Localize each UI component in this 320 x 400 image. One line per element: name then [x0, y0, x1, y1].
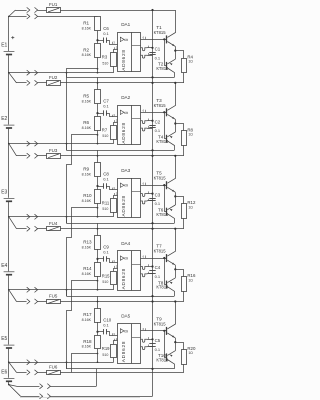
wire tap6 sense segment a [17, 386, 40, 388]
node divider mid block2 [96, 112, 98, 114]
wire R16 bottom [183, 291, 185, 301]
svg-text:КТ814: КТ814 [156, 285, 169, 290]
node tap0 [8, 16, 10, 18]
junction emitter bus / R12 block3 [174, 195, 176, 197]
junction T3 collector / top rail [174, 82, 176, 84]
wire tap2 sense drop [66, 144, 68, 151]
junction sense/divider tap1 [97, 72, 99, 74]
junction top rail / supply column block3 [151, 155, 153, 157]
junction loop/divider block2 [97, 134, 99, 136]
wire battery link E4-E5 [8, 275, 10, 344]
wire C6 to pin3 [106, 41, 118, 45]
svg-text:DA2: DA2 [121, 95, 130, 100]
wire tap4 fused segment a [17, 301, 27, 303]
junction divider / top rail block3 [97, 155, 99, 157]
svg-text:8.16K: 8.16K [82, 126, 92, 130]
junction V+ block2 [151, 120, 153, 122]
resistor R19 [111, 345, 117, 358]
connector sense tap5 pin a [27, 360, 30, 365]
transistor T10 emitter [167, 351, 175, 356]
connector tap6 out pin b [47, 394, 50, 399]
svg-text:FU1: FU1 [49, 2, 58, 7]
wire emitter bus block2 [175, 119, 177, 132]
svg-text:AD8628: AD8628 [121, 122, 126, 143]
resistor R13 [95, 236, 101, 250]
op-amp DA5 gain symbol [120, 329, 124, 333]
wire node to C10 [98, 331, 104, 333]
svg-text:0.1: 0.1 [103, 177, 109, 182]
wire tap4 fused diagonal [9, 290, 17, 302]
svg-text:C4: C4 [155, 265, 161, 270]
junction sense/loop tap1 [66, 72, 68, 74]
wire R6 loop to left bus [67, 135, 98, 224]
resistor R7 [111, 126, 117, 140]
svg-text:0.1: 0.1 [103, 31, 109, 36]
wire C8 to pin3 [106, 187, 118, 190]
pin 7 tick block1 [148, 46, 150, 48]
op-amp DA3 body [118, 179, 141, 218]
junction output/base split block3 [163, 184, 165, 186]
svg-text:AD8628: AD8628 [121, 49, 126, 70]
wire base drop block1 [165, 39, 168, 65]
resistor R16 [182, 277, 187, 292]
svg-text:0.1: 0.1 [155, 201, 161, 206]
wire tap1 sense drop [66, 73, 68, 78]
pin 2 tick block5 [114, 339, 116, 341]
wire tap6 out diagonal [9, 385, 21, 397]
wire tap5 fused segment b [38, 372, 47, 374]
junction sense/loop tap3 [66, 216, 68, 218]
wire bottom rail block4 [67, 296, 175, 298]
connector fused tap5 pin b [35, 370, 38, 375]
wire top rail block2 [60, 82, 184, 84]
svg-text:8.16K: 8.16K [82, 199, 92, 203]
transistor T5 base bar [166, 181, 168, 189]
junction bottom rail / supply column block1 [151, 76, 153, 78]
op-amp DA2 gain symbol [120, 110, 124, 114]
wire tap6 sense segment b [50, 386, 96, 388]
wire FU6 line to R20 [60, 372, 184, 374]
wire tap2 sense [9, 143, 114, 145]
junction V+ block3 [151, 193, 153, 195]
svg-text:∞: ∞ [124, 110, 128, 116]
connector fused tap2 pin a [27, 153, 30, 158]
connector fused tap2 pin b [35, 153, 38, 158]
wire tap5 fused diagonal [9, 362, 17, 372]
svg-text:КТ815: КТ815 [154, 103, 167, 108]
node tap2 [8, 143, 10, 145]
junction bottom rail / supply column block5 [151, 368, 153, 370]
junction top rail / supply column block5 [151, 300, 153, 302]
transistor T6 base bar [166, 208, 168, 216]
pin 6 tick block5 [145, 328, 147, 331]
connector sense tap1 pin b [35, 70, 38, 75]
svg-text:R5: R5 [83, 94, 89, 99]
battery E1 [4, 51, 15, 53]
wire tap3 sense drop [66, 217, 68, 223]
svg-text:510: 510 [102, 134, 108, 138]
op-amp DA3 gain symbol [120, 183, 124, 187]
wire R14 loop to left bus [67, 281, 98, 369]
transistor T7 emitter [167, 260, 175, 265]
transistor T8 collector [167, 287, 174, 296]
junction loop/divider block4 [97, 280, 99, 282]
pin 6 tick block1 [145, 37, 147, 40]
wire emitter bus block3 [175, 192, 177, 205]
fuse FU1 [47, 8, 61, 13]
wire R2 bottom [97, 57, 99, 72]
svg-text:R1: R1 [83, 21, 89, 26]
svg-text:∞: ∞ [124, 329, 128, 335]
wire battery link E3-E4 [8, 202, 10, 271]
junction output/base split block1 [163, 38, 165, 40]
transistor T9 base bar [166, 327, 168, 335]
pin 3 tick block3 [112, 188, 114, 190]
junction T7 collector / top rail [174, 228, 176, 230]
svg-text:C2: C2 [155, 119, 161, 124]
wire top rail block5 [60, 301, 184, 303]
svg-text:КТ815: КТ815 [154, 176, 167, 181]
wire R20 bottom [183, 364, 185, 372]
transistor T4 emitter [167, 132, 175, 137]
node tap3 [8, 216, 10, 218]
connector sense tap1 pin a [27, 70, 30, 75]
svg-text:R9: R9 [83, 167, 89, 172]
wire tap4 fused segment b [38, 301, 47, 303]
op-amp DA5 body [118, 324, 141, 364]
junction top rail / supply column block2 [151, 82, 153, 84]
wire base drop block4 [165, 258, 168, 285]
capacitor C3 [149, 198, 155, 200]
junction bottom rail / supply column block4 [151, 295, 153, 297]
wire bottom rail block3 [67, 223, 175, 225]
wire pin4 V- block4 [141, 274, 148, 277]
connector X1.2 pin a [27, 14, 30, 19]
svg-text:C1: C1 [155, 47, 161, 52]
wire divider chain into block2 [97, 77, 99, 90]
transistor T3 emitter [167, 114, 175, 119]
svg-text:E6: E6 [1, 370, 7, 376]
transistor T2 emitter [167, 59, 175, 64]
wire bottom rail block5 [67, 368, 175, 370]
transistor T4 collector [167, 141, 174, 150]
wire tap0 fused segment a [16, 10, 27, 12]
fuse FU4 [47, 227, 61, 231]
svg-text:R3: R3 [102, 55, 108, 60]
wire pin4 V- block5 [141, 347, 148, 350]
fuse FU6 [47, 371, 61, 375]
transistor T1 collector [167, 10, 175, 37]
junction divider / top rail block5 [97, 301, 99, 303]
connector sense tap4 pin b [35, 287, 38, 292]
wire below E6 [8, 382, 10, 385]
wire R19 bottom [113, 358, 115, 362]
wire C9 to pin3 [106, 259, 118, 263]
connector sense tap5 pin b [35, 360, 38, 365]
junction V+ block1 [151, 47, 153, 49]
capacitor C8 [103, 183, 105, 188]
wire top rail block1 [60, 10, 175, 12]
junction sense/loop tap2 [66, 143, 68, 145]
battery E4 [4, 271, 15, 273]
wire battery link E2-E3 [8, 129, 10, 198]
svg-text:КТ815: КТ815 [154, 30, 167, 35]
svg-text:AD8628: AD8628 [121, 268, 126, 289]
svg-text:0.1: 0.1 [155, 347, 161, 352]
pin 2 tick block4 [114, 266, 116, 268]
wire R17-R18 link [97, 322, 99, 335]
wire R10 loop to left bus [67, 208, 98, 297]
capacitor C7 [103, 110, 105, 115]
junction T9 collector / top rail [174, 300, 176, 302]
transistor T6 collector [167, 214, 174, 223]
svg-text:E3: E3 [1, 190, 7, 196]
connector tap6 sense pin a [40, 384, 43, 389]
wire tap5 fused segment a [17, 372, 27, 374]
pin 7 tick block3 [148, 191, 150, 193]
wire battery link E5-E6 [8, 349, 10, 378]
capacitor C4 [149, 270, 155, 272]
junction bottom rail / supply column block2 [151, 149, 153, 151]
battery E5 [4, 344, 15, 346]
pin 7 tick block5 [148, 337, 150, 339]
resistor R15 [111, 272, 117, 285]
junction T5 collector / top rail [174, 155, 176, 157]
svg-text:0.1: 0.1 [155, 274, 161, 279]
svg-text:R17: R17 [83, 312, 92, 317]
transistor T3 base bar [166, 108, 168, 116]
wire pin7 V+ block3 [141, 194, 148, 197]
wire R13-R14 link [97, 249, 99, 262]
resistor R10 [95, 190, 101, 204]
connector sense tap3 pin a [27, 214, 30, 219]
junction emitter bus / R20 block5 [174, 341, 176, 343]
wire divider chain into block5 [97, 296, 99, 308]
capacitor C1 [149, 52, 155, 54]
junction sense/loop tap4 [66, 289, 68, 291]
battery E3 [4, 197, 15, 199]
junction top rail / supply column block1 [151, 9, 153, 11]
svg-text:1Ω: 1Ω [188, 133, 193, 137]
wire node to C8 [98, 186, 104, 188]
wire left battery column top [8, 16, 10, 51]
junction top rail / supply column block4 [151, 228, 153, 230]
wire pin7 V+ block5 [141, 339, 148, 342]
svg-text:AD8628: AD8628 [121, 341, 126, 362]
junction emitter bus / R4 block1 [174, 50, 176, 52]
svg-text:FU5: FU5 [49, 294, 58, 299]
connector sense tap2 pin a [27, 141, 30, 146]
wire DA5 output [141, 330, 167, 332]
wire tap3 fused diagonal [9, 217, 17, 229]
connector tap6 out pin a [40, 394, 43, 399]
pin 6 tick block2 [145, 110, 147, 113]
wire R9-R10 link [97, 176, 99, 189]
wire R7 bottom [113, 139, 115, 143]
pin 4 tick block4 [148, 272, 150, 274]
junction output/base split block2 [163, 111, 165, 113]
wire tap4 sense [9, 289, 114, 291]
pin 3 tick block1 [112, 42, 114, 44]
wire R8 takeoff [175, 124, 183, 132]
wire tap1 fused segment b [38, 82, 47, 84]
svg-text:0.1: 0.1 [155, 55, 161, 60]
svg-text:1Ω: 1Ω [188, 351, 193, 355]
wire R15 top to pin2 [114, 269, 118, 272]
wire tap6 out segment a [21, 396, 40, 398]
resistor R2 [95, 44, 101, 58]
svg-text:R11: R11 [102, 201, 110, 206]
transistor T9 collector [167, 302, 175, 329]
svg-text:R6: R6 [83, 120, 89, 125]
wire R18 loop to left bus [72, 354, 98, 373]
battery E6 [4, 377, 15, 379]
polarity + mark at E1 [11, 36, 14, 39]
connector X1.2 pin b [35, 14, 38, 19]
pin 3 tick block2 [112, 115, 114, 117]
op-amp DA2 body [118, 106, 141, 145]
wire tap1 fused diagonal [9, 73, 17, 83]
svg-text:DA4: DA4 [121, 241, 130, 246]
wire R15 bottom [113, 285, 115, 290]
svg-text:AD8628: AD8628 [121, 195, 126, 216]
junction emitter bus / R8 block2 [174, 122, 176, 124]
svg-text:FU6: FU6 [49, 365, 58, 370]
wire tap5 sense drop [66, 362, 68, 369]
wire C10 to pin3 [106, 332, 118, 336]
wire R4 bottom [183, 73, 185, 83]
connector fused tap4 pin a [27, 299, 30, 304]
svg-text:R7: R7 [102, 128, 108, 133]
junction sense/divider tap4 [97, 289, 99, 291]
wire tap6 sense riser [96, 369, 98, 386]
svg-text:FU4: FU4 [49, 221, 58, 226]
op-amp DA4 gain symbol [120, 256, 124, 260]
resistor R12 [182, 204, 187, 219]
connector X1.1 pin b [35, 7, 38, 12]
svg-text:E4: E4 [1, 263, 7, 269]
connector fused tap3 pin b [35, 226, 38, 231]
transistor T5 collector [167, 156, 175, 183]
junction sense/divider tap2 [97, 143, 99, 145]
pin 6 tick block4 [145, 256, 147, 259]
node divider mid block5 [96, 331, 98, 333]
capacitor C5 [149, 343, 155, 345]
wire R12 bottom [183, 219, 185, 229]
op-amp DA1 body [118, 33, 141, 72]
node divider mid block1 [96, 39, 98, 41]
wire bottom rail block2 [67, 150, 175, 152]
wire R8 bottom [183, 146, 185, 156]
svg-text:8.16K: 8.16K [82, 27, 92, 31]
junction loop/divider block3 [97, 207, 99, 209]
junction V+ block4 [151, 265, 153, 267]
svg-text:8.16K: 8.16K [82, 318, 92, 322]
svg-text:E5: E5 [1, 336, 7, 342]
svg-text:8.16K: 8.16K [82, 345, 92, 349]
transistor T8 base bar [166, 281, 168, 289]
junction V+ block5 [151, 338, 153, 340]
svg-text:E1: E1 [1, 43, 7, 49]
connector fused tap1 pin b [35, 80, 38, 85]
battery E2 [4, 124, 15, 126]
node tap5 [8, 361, 10, 363]
svg-text:510: 510 [102, 280, 108, 284]
connector fused tap4 pin b [35, 299, 38, 304]
svg-text:C3: C3 [155, 192, 161, 197]
resistor R1 [95, 17, 101, 31]
svg-text:R15: R15 [102, 273, 110, 278]
transistor T1 base bar [166, 35, 168, 43]
wire emitter bus block4 [175, 265, 177, 278]
svg-text:0.1: 0.1 [103, 250, 109, 255]
wire divider chain into block4 [97, 223, 99, 236]
junction bottom rail / supply column block3 [151, 222, 153, 224]
wire R2 loop to left bus [67, 69, 98, 151]
wire DA4 output [141, 258, 167, 260]
fuse FU3 [47, 154, 61, 159]
wire pin4 V- block3 [141, 201, 148, 204]
junction output/base split block4 [163, 257, 165, 259]
wire tap3 fused segment a [17, 228, 27, 230]
svg-text:КТ814: КТ814 [156, 358, 169, 363]
pin 6 tick block3 [145, 183, 147, 186]
wire sense to R1 [97, 15, 99, 18]
wire pin4 V- block1 [141, 55, 148, 58]
wire C7 to pin3 [106, 114, 118, 117]
transistor T1 emitter [167, 42, 175, 47]
wire R1-R2 link [97, 31, 99, 44]
wire emitter bus block1 [175, 46, 177, 59]
wire R4 takeoff [175, 51, 183, 59]
wire R19 top to pin2 [114, 341, 118, 345]
transistor T2 collector [167, 68, 174, 77]
node divider mid block3 [96, 185, 98, 187]
transistor T9 emitter [167, 333, 175, 338]
connector fused tap1 pin a [27, 80, 30, 85]
junction sense/divider tap3 [97, 216, 99, 218]
resistor R11 [111, 199, 117, 213]
wire top rail block4 [60, 228, 184, 230]
resistor R6 [95, 117, 101, 131]
wire R11 top to pin2 [114, 196, 118, 199]
connector fused tap3 pin a [27, 226, 30, 231]
svg-text:КТ814: КТ814 [156, 212, 169, 217]
pin 2 tick block2 [114, 120, 116, 122]
op-amp DA4 body [118, 251, 141, 291]
wire tap0 sense segment a [9, 16, 27, 18]
wire R16 takeoff [175, 270, 183, 277]
connector sense tap2 pin b [35, 141, 38, 146]
svg-text:510: 510 [102, 207, 108, 211]
svg-text:FU3: FU3 [49, 148, 58, 153]
pin 3 tick block4 [112, 261, 114, 263]
wire tap0 fused segment b [38, 10, 47, 12]
svg-text:E2: E2 [1, 116, 7, 122]
wire tap2 fused diagonal [9, 144, 17, 156]
junction sense/loop tap5 [66, 361, 68, 363]
wire tap6 out segment b [50, 396, 152, 398]
svg-text:8.16K: 8.16K [82, 100, 92, 104]
svg-text:∞: ∞ [124, 183, 128, 189]
svg-text:0.1: 0.1 [155, 128, 161, 133]
wire base drop block3 [165, 185, 168, 211]
transistor T5 emitter [167, 187, 175, 192]
pin 2 tick block3 [114, 193, 116, 195]
wire bottom faint [20, 397, 140, 399]
pin 7 tick block4 [148, 264, 150, 266]
transistor T8 emitter [167, 278, 175, 283]
